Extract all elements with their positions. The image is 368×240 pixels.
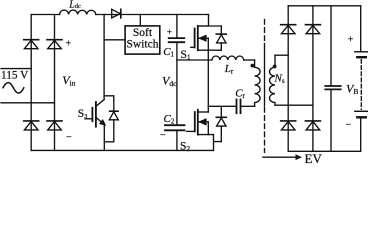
svg-text:−: − [346,120,352,131]
svg-text:C1: C1 [163,46,174,59]
inductor Lr [212,56,244,60]
capacitor C1 [169,15,185,43]
transformer core solid [264,43,266,106]
diode S2 antiparallel [216,106,226,141]
wire S3 collector drop [103,15,105,100]
wire Cr feed from midpoint [208,105,236,107]
diode input bridge bottom-right [47,121,62,130]
diode S1 antiparallel [216,26,226,50]
wire secondary top to bridge leg1 [275,54,288,56]
transistor S1 MOSFET [191,26,209,50]
wire top rail input [31,14,208,16]
svg-text:S3: S3 [78,108,88,120]
diode input bridge bottom-left [24,121,39,130]
diode output bridge bottom-right [305,121,320,130]
svg-text:Ns: Ns [274,73,285,86]
arrow EV [263,154,302,160]
capacitor output filter [325,6,340,152]
wire output bridge leg2 [312,6,314,152]
wire S2 bottom junction [214,142,222,151]
wire S3 diode bottom stub [104,141,114,143]
svg-text:Vin: Vin [62,73,75,88]
inductor Ldc [60,10,96,14]
wire midpoint vertical [207,50,209,112]
svg-text:+: + [66,39,72,50]
transformer primary winding [255,60,261,106]
battery VB dashed middle [360,60,362,110]
soft switch block [125,26,160,54]
svg-text:+: + [348,35,354,46]
svg-text:+: + [167,28,172,38]
svg-text:VB: VB [346,82,358,97]
diode input bridge top-left [24,40,39,49]
wire Lr feed from bus [177,59,212,61]
wire bus C1 to C2 [176,43,178,124]
wire secondary bottom to bridge leg2 [275,104,313,106]
transformer secondary dot [273,65,277,69]
battery VB top cell [355,52,368,57]
wire output bridge leg1 [287,6,289,152]
wire top rail output [288,5,361,7]
transformer secondary winding [270,55,276,105]
wire Lr to transformer [244,59,255,61]
transistor S3 IGBT [85,100,105,127]
transformer core boundary dashed top [264,20,266,43]
ac source 115 V wire bottom [1,102,55,104]
svg-text:Vdc: Vdc [162,74,177,89]
transformer primary dot [251,64,255,68]
svg-text:Lr: Lr [224,63,234,76]
transistor S2 MOSFET [187,110,209,135]
battery VB top lead [360,6,362,52]
svg-text:−: − [66,132,72,143]
battery VB bottom lead [360,118,362,152]
svg-text:−: − [160,130,166,141]
svg-text:Switch: Switch [127,39,159,51]
battery VB bottom cell [355,111,368,117]
capacitor Cr [237,99,241,113]
wire S1 source bar [198,49,222,51]
wire S3 diode top stub [104,96,114,101]
transformer core boundary dashed bottom [264,108,266,153]
wire bottom rail input [31,149,213,151]
wire Cr to transformer [241,105,254,107]
svg-text:Ldc: Ldc [68,0,81,10]
wire S2 source bar [198,135,214,142]
wire S3 emitter [103,125,105,151]
diode D rectifier-link [112,9,121,18]
svg-text:115 V: 115 V [1,70,29,82]
wire S1 drain bar [198,25,222,27]
svg-text:EV: EV [305,151,323,165]
capacitor C2 [165,125,185,150]
svg-text:S2: S2 [180,141,190,154]
svg-text:Cr: Cr [235,88,245,101]
diode output bridge top-left [281,25,296,34]
diode output bridge bottom-left [281,121,296,130]
ac source sine symbol [3,83,24,93]
wire soft switch top lead [139,15,141,26]
diode output bridge top-right [305,25,320,34]
diode S3 antiparallel [109,101,118,142]
wire input bridge left leg [30,15,32,151]
diode input bridge top-right [47,40,62,49]
ac source 115 V wire top [1,68,31,70]
wire input bridge right leg [54,15,56,151]
svg-text:C2: C2 [164,113,175,126]
svg-text:Soft: Soft [133,27,153,39]
wire bottom rail output [288,150,361,152]
wire top rail corner to S1 [198,15,209,27]
wire soft switch left lead [104,39,125,41]
